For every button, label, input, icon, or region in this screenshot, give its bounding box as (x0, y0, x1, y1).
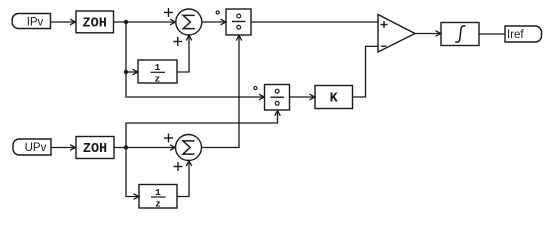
input port UPv (13, 139, 51, 155)
plus sign S1 left input (164, 8, 173, 17)
node junction J1 (124, 20, 128, 24)
block delay 1/z (top) (138, 60, 177, 85)
svg-text:Iref: Iref (507, 29, 524, 41)
svg-text:ZOH: ZOH (83, 142, 107, 157)
wire gain K up to comparator minus input (353, 46, 379, 97)
svg-text:UPv: UPv (25, 142, 47, 154)
wire divider D2 to gain K (290, 94, 315, 100)
minus sign comparator (381, 45, 387, 47)
wire comparator to saturation block (415, 31, 441, 37)
wire J2 to delay 1/z (top) (126, 69, 138, 75)
svg-text:IPv: IPv (27, 17, 44, 29)
node junction J2 (124, 70, 128, 74)
comparator triangle (378, 15, 415, 53)
plus sign S2 bottom input (174, 162, 183, 171)
sum S2 (176, 135, 202, 161)
wire UPv to ZOH2 (51, 145, 76, 151)
divider block D2 (265, 85, 290, 111)
block ZOH1 (zero-order hold) (76, 11, 114, 33)
wire IPv to ZOH1 (51, 19, 76, 25)
wire delay 1/z (bottom) to sum S2 bottom input (177, 161, 192, 197)
wire divider D1 output to comparator plus input (251, 21, 378, 23)
wire sum S2 output up to divider D1 bottom input (202, 35, 242, 147)
wire J2 down and right to divider D2 left input (126, 72, 264, 100)
wire sum S1 to divider D1 (202, 19, 226, 25)
gain block K (315, 86, 353, 109)
plus sign comparator (381, 21, 388, 28)
sample marker ring near D2 input (254, 86, 257, 89)
svg-text:1: 1 (155, 62, 161, 73)
block delay 1/z (bottom) (139, 185, 177, 210)
svg-text:z: z (155, 74, 161, 85)
divider block D1 (226, 9, 251, 35)
wire J3 up and right to divider D2 bottom input (126, 111, 280, 148)
plus sign S2 left input (164, 134, 173, 143)
plus sign S1 bottom input (173, 37, 182, 46)
wire ZOH1 to sum S1 (114, 19, 176, 25)
wire saturation to output Iref (479, 33, 505, 35)
block ZOH2 (zero-order hold) (76, 137, 114, 159)
output port Iref (505, 26, 542, 42)
svg-text:ZOH: ZOH (83, 17, 107, 32)
input port IPv (12, 13, 50, 28)
sample marker ring near D1 input (216, 11, 219, 14)
wire delay 1/z (top) to sum S1 bottom input (177, 35, 192, 72)
svg-text:1: 1 (155, 187, 161, 198)
sum S1 (176, 9, 202, 35)
wire J3 down to delay 1/z (bottom) (126, 148, 139, 200)
svg-text:z: z (155, 198, 161, 209)
node junction J3 (124, 145, 128, 149)
wire ZOH2 to sum S2 (114, 145, 175, 151)
wire J1 down to J2 (125, 22, 127, 72)
saturation block (441, 23, 479, 46)
svg-text:K: K (330, 92, 339, 107)
